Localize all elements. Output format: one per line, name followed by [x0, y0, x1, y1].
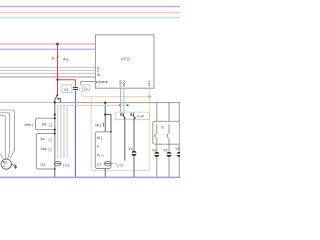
- svg-text:At [: At [: [97, 136, 102, 140]
- svg-text:Ads: Ads: [41, 147, 47, 151]
- svg-text:Cv: Cv: [84, 87, 88, 91]
- svg-text:Mt [: Mt [: [95, 123, 101, 127]
- svg-text:24V: 24V: [147, 81, 151, 86]
- svg-text:√1 W: √1 W: [136, 115, 143, 119]
- svg-text:ENABLE: ENABLE: [96, 80, 108, 84]
- svg-text:REV: REV: [122, 80, 126, 86]
- svg-text:Ms: Ms: [42, 123, 47, 127]
- svg-text:V4: V4: [129, 147, 133, 151]
- svg-text:V3: V3: [175, 147, 179, 151]
- svg-text:CS: CS: [41, 163, 47, 167]
- svg-text:[ ]: [ ]: [49, 148, 52, 152]
- svg-text:{ Ct: { Ct: [117, 163, 123, 167]
- svg-text:VFD: VFD: [121, 57, 131, 62]
- svg-text:AU₁: AU₁: [63, 57, 70, 61]
- svg-text:As: As: [41, 137, 45, 141]
- svg-text:Ts ∿: Ts ∿: [97, 153, 104, 157]
- svg-text:V1: V1: [152, 148, 156, 152]
- svg-text:[ ]: [ ]: [49, 138, 52, 142]
- svg-text:F: F: [4, 164, 6, 168]
- svg-text:{ Cs: { Cs: [63, 163, 70, 167]
- svg-text:Mds {: Mds {: [25, 123, 35, 127]
- svg-text:V2: V2: [164, 148, 168, 152]
- svg-text:[ ]: [ ]: [49, 123, 52, 127]
